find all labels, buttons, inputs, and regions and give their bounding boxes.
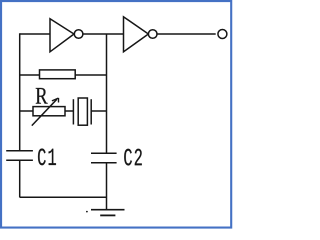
label C2 — [124, 149, 142, 166]
capacitor C1 bottom plate — [6, 159, 33, 161]
border frame — [1, 1, 231, 228]
node feedback junction — [106, 34, 108, 75]
inverter U2 bubble — [148, 30, 157, 39]
capacitor C2 top plate — [91, 152, 117, 154]
wire U1 output to U2 input — [83, 33, 124, 35]
crystal Y1 left plate — [72, 99, 74, 124]
wire crystal to right rail — [91, 110, 106, 112]
ground bar 2 — [100, 214, 115, 216]
wire C1 to bottom rail — [19, 160, 21, 197]
arrowhead of variable resistor R — [52, 98, 59, 103]
wire left rail — [19, 33, 21, 151]
wire right rail — [106, 75, 108, 153]
inverter U1 — [50, 19, 74, 52]
stray dot — [86, 211, 88, 213]
wire trimmer to crystal — [65, 110, 73, 112]
inverter U2 — [124, 17, 149, 52]
wire C2 down to ground — [106, 163, 108, 210]
ground bar 1 — [91, 209, 125, 211]
resistor feedback — [40, 70, 76, 79]
wire U2 output — [157, 33, 216, 35]
wire feedback resistor row — [20, 74, 107, 76]
crystal Y1 right plate — [90, 99, 92, 124]
label C1 — [38, 149, 56, 166]
wire bottom — [20, 196, 107, 198]
capacitor C2 bottom plate — [91, 162, 117, 164]
label R — [36, 88, 48, 104]
capacitor C1 top plate — [6, 150, 33, 152]
crystal Y1 body — [78, 98, 87, 125]
arrow of variable resistor R — [32, 99, 57, 125]
wire trimmer row left — [20, 110, 33, 112]
wire input to U1 — [20, 33, 50, 35]
resistor R (variable) — [33, 107, 65, 116]
inverter U1 bubble — [74, 30, 83, 39]
output terminal — [218, 30, 227, 39]
